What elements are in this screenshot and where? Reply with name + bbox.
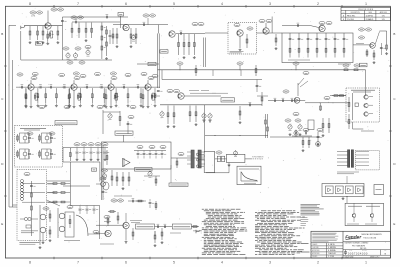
svg-text:TO FOOTSWITCH: TO FOOTSWITCH: [252, 157, 263, 159]
svg-text:1: 1: [365, 260, 367, 264]
svg-text:5: 5: [173, 260, 175, 264]
svg-text:R E V I S I O N S: R E V I S I O N S: [359, 9, 374, 11]
svg-text:5: 5: [173, 2, 175, 6]
svg-text:10-SEP-84: 10-SEP-84: [366, 15, 374, 17]
svg-text:E: E: [1, 222, 3, 226]
svg-text:B: B: [343, 19, 344, 21]
svg-text:PROD. REL.: PROD. REL.: [347, 15, 356, 17]
svg-text:LTR: LTR: [342, 12, 344, 14]
svg-text:D. BROWN: D. BROWN: [328, 247, 336, 249]
svg-text:4: 4: [221, 2, 223, 6]
svg-text:SHEET 1 OF 2: SHEET 1 OF 2: [370, 256, 379, 258]
svg-text:6: 6: [125, 2, 127, 6]
svg-text:3: 3: [269, 260, 271, 264]
svg-text:8: 8: [29, 2, 31, 6]
svg-text:R. SMITH: R. SMITH: [328, 244, 335, 246]
svg-text:0 0 5 7 0 3 4 0 0 0: 0 0 5 7 0 3 4 0 0 0: [348, 252, 368, 255]
svg-text:6: 6: [125, 260, 127, 264]
svg-text:DESCRIPTION: DESCRIPTION: [351, 12, 360, 14]
svg-text:ISSUED: ISSUED: [312, 256, 317, 258]
svg-text:2: 2: [317, 260, 319, 264]
svg-text:C.N. 2806: C.N. 2806: [347, 19, 354, 21]
svg-text:D: D: [344, 250, 347, 255]
svg-text:3: 3: [269, 2, 271, 6]
svg-text:B: B: [393, 32, 395, 36]
svg-text:E: E: [393, 222, 395, 226]
svg-text:REV: REV: [384, 250, 387, 252]
svg-text:C. TODD: C. TODD: [328, 256, 335, 258]
svg-text:8: 8: [29, 260, 31, 264]
svg-text:4: 4: [221, 260, 223, 264]
svg-text:1: 1: [365, 2, 367, 6]
svg-text:B: B: [1, 32, 3, 36]
svg-text:Fender: Fender: [345, 235, 362, 241]
svg-text:MUSICAL INSTRUMENTS: MUSICAL INSTRUMENTS: [362, 233, 383, 236]
svg-text:2: 2: [317, 2, 319, 6]
svg-text:7: 7: [77, 260, 79, 264]
svg-text:C1 R1: C1 R1: [31, 16, 35, 18]
svg-text:CHECKED: CHECKED: [312, 247, 318, 249]
svg-text:7: 7: [77, 2, 79, 6]
